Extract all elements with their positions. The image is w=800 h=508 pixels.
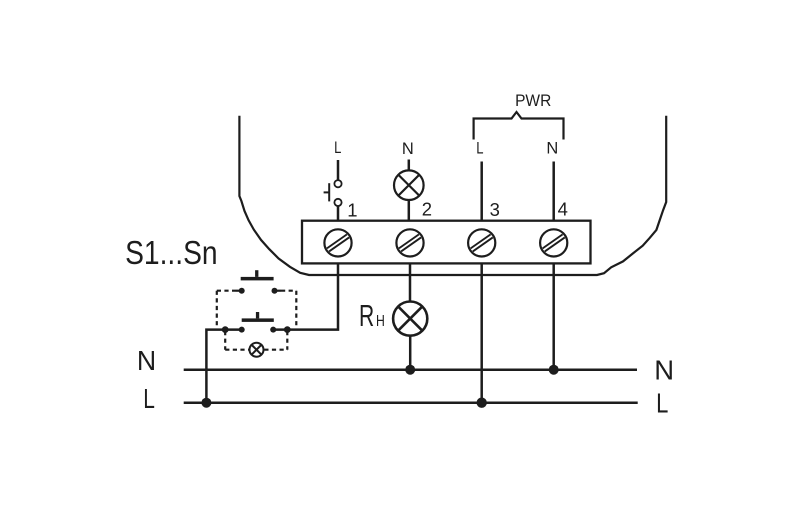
- svg-text:1: 1: [347, 199, 357, 220]
- relay contact (internal switch): [324, 180, 342, 206]
- dashed box (more buttons): [217, 291, 296, 329]
- svg-text:N: N: [402, 140, 414, 158]
- wire lamp to terminal 2: [408, 200, 411, 221]
- push button Sn (middle): [242, 312, 274, 322]
- svg-text:PWR: PWR: [515, 93, 551, 111]
- push button S1 (top): [241, 270, 274, 280]
- terminal screw 3: [468, 229, 495, 256]
- svg-text:3: 3: [490, 199, 500, 220]
- svg-text:R: R: [359, 298, 374, 333]
- wire terminal 1 down to buttons: [273, 263, 338, 329]
- lamp indicator (terminal 2): [394, 170, 424, 200]
- svg-text:N: N: [137, 345, 156, 376]
- svg-text:L: L: [476, 140, 483, 158]
- wire N to lamp: [408, 160, 411, 172]
- lamp RH: [393, 302, 427, 336]
- N rail: [184, 368, 637, 371]
- terminal screw 2: [396, 229, 423, 256]
- lamp S (circle): [250, 343, 264, 357]
- wire L to terminal 3: [480, 162, 483, 221]
- svg-text:2: 2: [422, 199, 432, 220]
- svg-text:N: N: [546, 139, 558, 157]
- illuminated button lamp (dashed branch): [225, 331, 287, 350]
- svg-text:L: L: [143, 384, 155, 414]
- contact dots Sn: [222, 326, 291, 333]
- wire lamp RH to N rail: [409, 336, 412, 370]
- wire contact to terminal 1: [337, 206, 340, 221]
- terminal box: [302, 221, 591, 264]
- svg-text:L: L: [656, 388, 668, 419]
- svg-text:L: L: [334, 140, 341, 158]
- contact dots S1: [239, 288, 278, 294]
- junction dots on rails: [201, 365, 558, 408]
- wire L to relay contact: [337, 160, 340, 180]
- device case outline: [239, 116, 666, 275]
- L rail: [184, 401, 638, 404]
- wire N to terminal 4: [552, 162, 555, 221]
- svg-text:4: 4: [558, 198, 568, 219]
- wire buttons to L rail: [206, 330, 241, 403]
- terminal screw 1: [324, 229, 351, 256]
- wire terminal 2 to lamp RH: [409, 263, 412, 301]
- terminal screw 4: [540, 229, 567, 256]
- svg-text:N: N: [654, 355, 674, 386]
- wire terminal 3 to L rail: [480, 263, 483, 402]
- contact leads S1: [236, 290, 242, 292]
- wire terminal 4 to N rail: [552, 263, 555, 369]
- PWR bracket: [474, 112, 564, 140]
- svg-text:S1...Sn: S1...Sn: [125, 234, 218, 272]
- svg-text:H: H: [376, 311, 385, 329]
